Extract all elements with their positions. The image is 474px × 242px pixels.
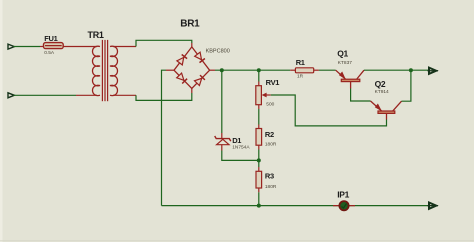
- value KT837: [338, 60, 352, 66]
- label RV1: [266, 78, 280, 87]
- svg-text:1N754A: 1N754A: [232, 145, 250, 151]
- fuse FU1: [44, 43, 64, 49]
- BR1 diode bottom-right: [195, 75, 205, 85]
- svg-text:R1: R1: [296, 58, 305, 67]
- wire: R2 bottom pin (red): [258, 145, 260, 149]
- wire: Q1 base to Q2 emitter: [351, 89, 371, 102]
- wire: secondary top pin (red): [113, 46, 136, 48]
- BR1 diode bottom-left: [177, 73, 187, 83]
- wire: top input to fuse: [14, 46, 41, 48]
- wire: secondary top elbow to bridge top: [136, 40, 192, 46]
- transformer TR1 core: [102, 40, 107, 101]
- window edge left: [0, 0, 3, 242]
- label R1: [296, 58, 305, 67]
- label TR1: [88, 30, 104, 40]
- value 180R (R3): [265, 184, 277, 190]
- BR1 diode top-left: [177, 55, 187, 65]
- svg-text:180R: 180R: [265, 184, 277, 190]
- value 500: [266, 102, 274, 108]
- wire: bridge top pin stub (red): [191, 43, 193, 47]
- wire: RV1 top: [258, 70, 260, 81]
- svg-text:KT837: KT837: [338, 60, 352, 66]
- wire: D1 anode to R2/R3 junction: [222, 151, 259, 161]
- transistor Q1: [336, 70, 364, 88]
- wire: bridge right pin stub (red): [210, 69, 215, 71]
- svg-text:FU1: FU1: [44, 34, 57, 43]
- node: R3 bottom rail junction: [257, 204, 261, 208]
- label R3: [265, 172, 274, 181]
- wire: D1 cathode pin (red): [221, 133, 223, 138]
- wire: transformer primary bottom pin (red): [76, 94, 97, 96]
- wire: bridge left pin stub (red): [166, 69, 174, 71]
- svg-text:500: 500: [266, 102, 274, 108]
- value KBPC800: [206, 48, 230, 54]
- wire: secondary bottom elbow to bridge bottom: [136, 93, 192, 100]
- wire: R1 left pin (red): [290, 69, 295, 71]
- svg-text:R3: R3: [265, 172, 274, 181]
- svg-text:BR1: BR1: [180, 19, 200, 30]
- wire: fuse to transformer primary top (red pin): [63, 46, 97, 48]
- BR1 diode top-right: [195, 52, 205, 62]
- node: R2/R3/D1 junction: [257, 158, 261, 162]
- svg-text:RV1: RV1: [266, 78, 280, 87]
- zener diode D1: [215, 136, 231, 145]
- wire: bridge left corner to bottom rail: [162, 70, 167, 205]
- wire: R3 top pin (red): [258, 167, 260, 171]
- wire: R3 bottom pin (red): [258, 188, 260, 192]
- wire: D1 anode pin (red): [221, 145, 223, 151]
- wire: R2 to R3: [258, 150, 260, 168]
- svg-text:IP1: IP1: [337, 190, 349, 200]
- label R2: [265, 130, 274, 139]
- value 1R: [297, 74, 304, 80]
- value 180R (R2): [265, 141, 277, 147]
- label Q1: [337, 49, 348, 59]
- wire: RV1 top pin (red): [258, 82, 260, 86]
- svg-text:Q2: Q2: [375, 79, 386, 89]
- wire: secondary bottom pin (red): [113, 94, 136, 96]
- input terminal bottom: [8, 93, 14, 98]
- label Q2: [375, 79, 386, 89]
- wire: bottom rail: [162, 205, 430, 207]
- svg-text:KBPC800: KBPC800: [206, 48, 230, 54]
- output terminal top: [428, 68, 439, 74]
- resistor R1: [295, 68, 313, 73]
- svg-text:R2: R2: [265, 130, 274, 139]
- svg-text:KT914: KT914: [375, 89, 389, 95]
- window edge bottom: [0, 240, 474, 242]
- node: D1 tap junction: [220, 68, 224, 72]
- resistor R3: [256, 171, 262, 188]
- wire: R1 right pin (red): [314, 69, 319, 71]
- label D1: [232, 136, 241, 145]
- transistor Q2: [371, 101, 402, 120]
- svg-text:180R: 180R: [265, 141, 277, 147]
- label FU1: [44, 34, 57, 43]
- label IP1: [337, 190, 349, 200]
- wire: fuse pin left (red): [40, 46, 44, 48]
- potentiometer RV1: [256, 86, 271, 105]
- value 0.5A: [44, 50, 55, 56]
- current probe IP1: [333, 201, 355, 210]
- wire: D1 top: [221, 70, 223, 133]
- wire: R2 top pin (red): [258, 125, 260, 129]
- value 1N754A: [232, 145, 250, 151]
- wire: bridge bottom pin stub (red): [191, 88, 193, 93]
- wire: R1 to Q1 emitter: [319, 69, 336, 71]
- value KT914: [375, 89, 389, 95]
- wire: Q2 collector to output rail: [402, 70, 411, 101]
- wire: Q1 collector to output rail: [364, 69, 430, 71]
- svg-text:TR1: TR1: [88, 30, 104, 40]
- wire: RV1 to R2: [258, 109, 260, 125]
- resistor R2: [256, 129, 262, 146]
- wire: RV1 wiper to Q2 base net: [271, 95, 387, 126]
- input terminal top: [8, 44, 14, 49]
- transformer TR1 secondary coil: [110, 46, 118, 95]
- label BR1: [180, 19, 200, 30]
- wire: bottom input to transformer: [14, 94, 77, 96]
- bridge rectifier BR1: [174, 47, 210, 89]
- svg-text:Q1: Q1: [337, 49, 348, 59]
- output terminal bottom: [428, 203, 439, 209]
- svg-text:0.5A: 0.5A: [44, 50, 55, 56]
- wire: RV1 bottom pin (red): [258, 105, 260, 109]
- wire: positive rail to R1: [215, 69, 290, 71]
- node: output rail junction: [409, 68, 413, 72]
- svg-text:1R: 1R: [297, 74, 304, 80]
- transformer TR1 primary coil: [93, 46, 101, 95]
- wire: R3 to bottom rail: [258, 192, 260, 205]
- svg-text:D1: D1: [232, 136, 241, 145]
- node: RV1 tap junction: [257, 68, 261, 72]
